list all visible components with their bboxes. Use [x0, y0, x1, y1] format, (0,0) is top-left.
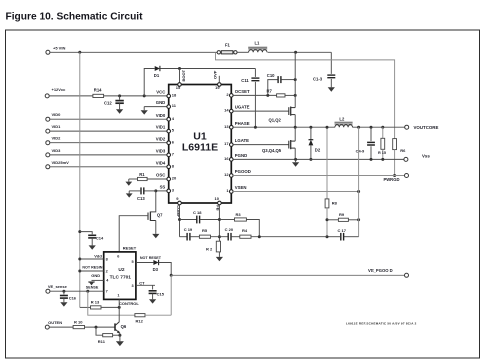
- U1 pin 20 OSC: [156, 173, 177, 181]
- svg-text:PGND: PGND: [235, 153, 247, 158]
- junction R15 top: [381, 126, 384, 129]
- svg-text:C4-9: C4-9: [356, 149, 365, 154]
- svg-text:L6911E REF.SCHEMATIC 50 A/5V 9: L6911E REF.SCHEMATIC 50 A/5V 97 8C/A 2: [346, 321, 417, 325]
- junction C10 branch: [266, 94, 269, 97]
- wire bypass +5V to R6 pullup: [216, 52, 395, 138]
- ground under C1-3: [328, 87, 335, 91]
- junction RESIN rail: [78, 270, 81, 273]
- wire F1 to L1: [237, 51, 249, 53]
- svg-text:17: 17: [224, 141, 229, 146]
- ground under C16: [60, 302, 67, 306]
- terminal Vss: [404, 153, 430, 161]
- wire R12 to Vtt drop: [145, 314, 171, 316]
- U1 pin 13 PHASE: [224, 121, 250, 129]
- svg-text:R11: R11: [98, 339, 106, 344]
- U1 pin 14 UGATE: [224, 105, 250, 113]
- wire Vtt_PGOOD line: [171, 274, 404, 276]
- wire Q6 emitter to ground: [119, 333, 121, 341]
- resistor R13: [91, 299, 102, 309]
- resistor R14: [93, 88, 104, 98]
- ground under Q7: [152, 234, 159, 238]
- capacitor C1-3: [313, 75, 335, 81]
- svg-text:L1: L1: [255, 40, 261, 45]
- U1 pin 5 VID1: [156, 125, 175, 133]
- svg-text:16: 16: [224, 156, 229, 161]
- U1 pin 17 LGATE: [224, 138, 249, 146]
- wire PGOOD to PWRGD: [233, 175, 404, 177]
- junction +5V FET rail: [294, 51, 297, 54]
- U1 pin 6 VID2: [156, 136, 175, 144]
- junction D2 gnd: [309, 158, 312, 161]
- junction R9 right: [357, 218, 360, 221]
- wire C10 to +5 rail: [281, 79, 295, 81]
- svg-text:D2: D2: [315, 148, 321, 153]
- svg-text:VID0: VID0: [52, 112, 62, 117]
- svg-text:8: 8: [106, 257, 108, 261]
- wire LGATE to Q3 gate: [233, 144, 289, 146]
- wire to R11: [96, 327, 103, 335]
- wire D1 to BOOT and C11: [161, 68, 256, 70]
- wire Q3 source to PGND: [294, 148, 296, 159]
- svg-text:BOOT: BOOT: [181, 69, 186, 81]
- U1 pin 15 BOOT: [176, 69, 186, 90]
- capacitor C16: [60, 291, 77, 300]
- svg-text:OSC: OSC: [156, 173, 165, 178]
- junction R6 PWRGD: [393, 174, 396, 177]
- ground at PGND: [292, 159, 299, 166]
- svg-text:VSEN: VSEN: [235, 185, 247, 190]
- svg-text:R 15: R 15: [378, 151, 386, 155]
- svg-text:NOT RESIN: NOT RESIN: [82, 266, 102, 270]
- terminal VID1: [46, 124, 61, 133]
- wire C16 ground: [63, 298, 65, 302]
- U1 pin 2 OCSET: [226, 89, 250, 97]
- svg-text:C 19: C 19: [184, 227, 193, 232]
- terminal VID2: [46, 136, 61, 145]
- junction R7 rail: [294, 94, 297, 97]
- svg-text:L6911E: L6911E: [182, 142, 218, 154]
- junction phase FETs: [294, 126, 297, 129]
- svg-text:Q1,Q2: Q1,Q2: [269, 118, 282, 123]
- U2 pin 1 CONTROL: [117, 294, 139, 306]
- resistor R1: [138, 172, 148, 180]
- junction output sense: [357, 126, 360, 129]
- transistor Q3,Q4,Q5: [262, 140, 295, 153]
- svg-text:19: 19: [215, 85, 220, 90]
- svg-text:VE_sense: VE_sense: [48, 284, 68, 289]
- wire COMP down: [179, 205, 181, 237]
- wire R6 to PWRGD: [394, 150, 396, 176]
- wire C14 ground: [91, 238, 93, 245]
- wire C1-3 to ground: [330, 79, 332, 87]
- svg-text:2: 2: [106, 269, 108, 273]
- junction VSEN sense: [357, 190, 360, 193]
- resistor R3: [219, 212, 246, 221]
- junction BOOT: [178, 67, 181, 70]
- svg-text:VCC: VCC: [156, 90, 165, 95]
- junction R8 net phase: [326, 126, 329, 129]
- junction C10 rail: [294, 78, 297, 81]
- svg-text:TLC 7701: TLC 7701: [110, 275, 132, 281]
- wire L2 to VOUTCORE: [353, 126, 405, 128]
- junction C17 left: [326, 235, 329, 238]
- wire Q6 collector: [118, 307, 120, 322]
- wire C12 to ground: [119, 103, 121, 109]
- U2 pin 3 CT: [131, 280, 145, 288]
- junction FB C18: [218, 218, 221, 221]
- resistor R6: [393, 139, 406, 154]
- svg-text:D3: D3: [153, 267, 159, 272]
- U1 pin 19 OVP: [212, 70, 221, 90]
- junction PGND ground: [294, 158, 297, 161]
- U1 pin 18 VCC: [156, 90, 177, 98]
- svg-text:R 2: R 2: [206, 246, 213, 251]
- junction D1 branch: [143, 94, 146, 97]
- wire VCC to D1: [144, 69, 155, 96]
- U2 pin 4 GND: [91, 273, 109, 283]
- wire GND pin to ground: [144, 106, 167, 108]
- svg-text:R1: R1: [139, 172, 145, 177]
- terminal VE_sense: [46, 284, 68, 293]
- wire +12Vcc to R14: [49, 95, 93, 97]
- wire R5 to FB: [211, 236, 228, 238]
- svg-text:C12: C12: [104, 100, 112, 105]
- U2 pin 8 Vdd: [94, 254, 107, 262]
- wire to C11: [254, 69, 256, 77]
- svg-text:7: 7: [106, 290, 108, 294]
- svg-text:OVP: OVP: [212, 70, 217, 79]
- terminal VID0: [46, 112, 61, 121]
- capacitor C12: [104, 96, 124, 105]
- svg-text:CONTROL: CONTROL: [119, 301, 139, 306]
- terminal OUTEN: [45, 320, 62, 329]
- title caption: [6, 12, 144, 23]
- capacitor C18: [180, 210, 220, 223]
- svg-text:18: 18: [172, 93, 177, 98]
- junction VE_sense drop: [86, 290, 89, 293]
- wire NOT RESET to D3: [136, 262, 154, 264]
- resistor R11: [98, 334, 113, 344]
- capacitor C10: [267, 73, 281, 83]
- wire Q1 source to PHASE: [294, 115, 296, 128]
- board reference code: [346, 321, 417, 325]
- wire C19 to R5: [190, 236, 199, 238]
- svg-text:R3: R3: [236, 212, 242, 217]
- wire VID25mV to pin VID4: [50, 166, 167, 168]
- svg-text:12: 12: [224, 172, 229, 177]
- wire Q7 gate to U2 RESET: [119, 216, 148, 252]
- svg-text:R 13: R 13: [91, 299, 100, 304]
- svg-text:13: 13: [224, 124, 229, 129]
- U2 pin 5 NOT RESET: [131, 256, 161, 264]
- svg-text:+5 VIN: +5 VIN: [53, 45, 65, 50]
- resistor R15: [378, 127, 386, 159]
- wire SS pin to junction: [156, 190, 167, 192]
- op-amp U1 L6911E body: [169, 85, 232, 204]
- U1 pin 10 FB: [215, 196, 222, 211]
- svg-text:VID25mV: VID25mV: [52, 160, 70, 165]
- svg-text:U2: U2: [118, 267, 124, 273]
- wire L1 to C1-3 corner: [268, 51, 332, 53]
- ground under R2: [216, 257, 223, 261]
- capacitor C19: [184, 227, 193, 241]
- capacitor C13: [129, 187, 156, 200]
- wire C15 ground: [152, 294, 154, 300]
- wire BOOT drop: [179, 69, 181, 85]
- transistor Q1,Q2: [269, 107, 296, 123]
- diode D1: [154, 66, 160, 78]
- svg-text:R 10: R 10: [74, 320, 83, 325]
- svg-text:10: 10: [215, 196, 220, 201]
- wire R1 to ground: [129, 178, 138, 180]
- wire down to C1-3: [330, 52, 332, 74]
- ground under C15: [149, 299, 156, 303]
- svg-text:VID4: VID4: [156, 160, 166, 165]
- svg-text:NOT RESET: NOT RESET: [140, 256, 162, 260]
- svg-text:VID1: VID1: [52, 124, 62, 129]
- svg-text:COMP: COMP: [176, 205, 181, 217]
- U1 pin 1 VSEN: [226, 185, 246, 193]
- capacitor C20: [225, 227, 234, 241]
- svg-text:C 18: C 18: [193, 210, 202, 215]
- terminal VID3: [46, 148, 61, 157]
- U1 pin 12 PGOOD: [224, 169, 251, 177]
- wire VID2 to pin VID2: [50, 142, 167, 144]
- wire UGATE to Q1 gate: [233, 110, 289, 112]
- svg-text:VOUTCORE: VOUTCORE: [414, 125, 439, 130]
- svg-text:LGATE: LGATE: [235, 138, 249, 143]
- svg-text:20: 20: [172, 176, 177, 181]
- wire C11 to PHASE: [254, 82, 256, 127]
- svg-text:15: 15: [176, 85, 181, 90]
- op-amp U2 TLC7701 body: [104, 252, 136, 300]
- wire OCSET to R7: [233, 94, 277, 96]
- wire rail to RESIN: [80, 270, 104, 272]
- terminal +12Vcc: [45, 87, 66, 98]
- wire R3 corner: [246, 220, 259, 237]
- U1 pin 9 COMP: [176, 196, 182, 218]
- terminal Vtt_PGOOD: [368, 268, 409, 277]
- svg-text:VID2: VID2: [156, 136, 166, 141]
- capacitor C17: [327, 228, 359, 240]
- wire OSC pin to R1: [147, 178, 167, 180]
- svg-text:1: 1: [117, 294, 119, 298]
- wire sense down R8 top: [326, 127, 328, 199]
- resistor R2: [206, 241, 221, 252]
- svg-text:CT: CT: [139, 280, 145, 285]
- transistor Q6: [115, 322, 127, 334]
- svg-text:Vdd: Vdd: [94, 254, 102, 259]
- wire Vtt down to R12: [170, 275, 172, 315]
- wire R10 to Q6 base: [85, 326, 116, 328]
- svg-text:VID3: VID3: [156, 149, 166, 154]
- svg-text:Q6: Q6: [121, 324, 127, 329]
- diode D2: [309, 127, 321, 159]
- svg-text:C1-3: C1-3: [313, 76, 323, 81]
- junction SS: [154, 189, 157, 192]
- wire Q7 source to ground: [155, 221, 157, 234]
- wire SS to Q7 drain: [150, 191, 155, 212]
- svg-text:VID2: VID2: [52, 136, 62, 141]
- U2 pin 7 SENSE: [86, 286, 108, 294]
- wire R7 to +5 rail: [285, 94, 295, 96]
- svg-text:C10: C10: [267, 73, 275, 78]
- ground at C13: [126, 191, 133, 198]
- wire +5 rail down to Q1 drain: [294, 52, 296, 107]
- svg-text:3: 3: [131, 284, 133, 288]
- svg-text:C 20: C 20: [225, 227, 234, 232]
- ground at GND pin: [141, 107, 148, 115]
- wire PHASE to Q3 drain: [294, 127, 296, 141]
- wire VE_sense to U2: [50, 290, 104, 292]
- svg-text:D1: D1: [154, 73, 160, 78]
- junction D2 phase: [309, 126, 312, 129]
- junction COMP C18: [178, 218, 181, 221]
- wire OUTEN to R10: [49, 326, 73, 328]
- svg-text:OCSET: OCSET: [235, 89, 250, 94]
- junction C12: [118, 94, 121, 97]
- svg-text:R6: R6: [400, 148, 406, 153]
- wire VID1 to pin VID1: [50, 130, 167, 132]
- junction Vdd rail: [78, 258, 81, 261]
- junction C11 phase: [254, 126, 257, 129]
- ground under C14: [89, 245, 96, 249]
- fuse F1: [217, 42, 237, 54]
- wire D3 corner: [159, 263, 172, 276]
- svg-text:14: 14: [224, 108, 229, 113]
- svg-text:Q3,Q4,Q5: Q3,Q4,Q5: [262, 148, 282, 153]
- svg-text:Q7: Q7: [157, 212, 163, 217]
- svg-text:C 17: C 17: [338, 228, 347, 233]
- U1 pin 7 VID3: [156, 149, 175, 157]
- svg-text:GND: GND: [91, 273, 100, 278]
- resistor R7: [267, 89, 286, 97]
- svg-text:L2: L2: [339, 116, 345, 121]
- wire R13 from rail: [80, 306, 91, 308]
- svg-text:PGOOD: PGOOD: [235, 169, 251, 174]
- svg-text:R4: R4: [242, 228, 248, 233]
- svg-text:+12Vcc: +12Vcc: [52, 87, 67, 92]
- junction R11 branch: [95, 326, 98, 329]
- diode D3: [153, 260, 159, 272]
- wire U2 GND pin: [92, 279, 104, 281]
- wire to C10: [268, 80, 278, 96]
- wire R4 to C17 row: [251, 236, 327, 238]
- resistor R12: [135, 314, 145, 324]
- junction C4-9 top: [370, 126, 373, 129]
- svg-text:C13: C13: [137, 196, 145, 201]
- wire +5V rail down: [79, 52, 81, 307]
- wire R13 to CONTROL: [101, 306, 119, 308]
- wire sense vertical: [358, 127, 360, 237]
- wire VID3 to pin VID3: [50, 154, 167, 156]
- resistor R5: [199, 228, 210, 238]
- junction R15 bottom: [381, 158, 384, 161]
- svg-text:SENSE: SENSE: [86, 286, 99, 290]
- svg-text:R14: R14: [94, 88, 102, 93]
- svg-text:RESET: RESET: [123, 245, 137, 250]
- svg-text:VID0: VID0: [156, 113, 166, 118]
- svg-text:PHASE: PHASE: [235, 121, 250, 126]
- junction R9 left: [326, 218, 329, 221]
- junction Vtt line: [170, 274, 173, 277]
- svg-text:R12: R12: [136, 318, 144, 323]
- resistor R4: [240, 228, 251, 238]
- ground under C12: [116, 109, 123, 113]
- svg-text:R8: R8: [332, 201, 338, 206]
- ground at R1: [125, 179, 132, 186]
- svg-text:R5: R5: [202, 228, 208, 233]
- capacitor C15: [149, 285, 165, 296]
- wire R2 to ground: [218, 252, 220, 257]
- capacitor C11 bootstrap: [241, 78, 259, 83]
- svg-text:SS: SS: [160, 185, 166, 190]
- junction emitter: [118, 334, 121, 337]
- wire VE_sense to R12 row: [88, 291, 135, 315]
- junction C14 branch: [78, 230, 81, 233]
- svg-text:Figure 10. Schematic Circuit: Figure 10. Schematic Circuit: [6, 12, 144, 23]
- svg-text:GND: GND: [156, 100, 166, 105]
- wire comp row: [180, 236, 187, 238]
- svg-text:PWRGD: PWRGD: [383, 177, 399, 182]
- U1 pin 4 VID0: [156, 113, 175, 121]
- svg-text:F1: F1: [225, 42, 231, 47]
- wire PHASE pin to L2: [233, 126, 335, 128]
- U1 pin 11 GND: [156, 100, 177, 108]
- svg-text:VID1: VID1: [156, 125, 166, 130]
- svg-text:VID3: VID3: [52, 148, 62, 153]
- junction FB row: [218, 235, 221, 238]
- ground at U2 GND: [88, 282, 94, 285]
- terminal VOUTCORE: [405, 125, 439, 130]
- svg-text:Vss: Vss: [422, 153, 430, 158]
- terminal PWRGD: [383, 174, 408, 183]
- U2 pin 6 RESET: [117, 245, 136, 258]
- U1 pin 3 SS: [160, 185, 175, 193]
- inductor L1: [248, 40, 267, 52]
- svg-text:R9: R9: [339, 212, 345, 217]
- capacitor C4-9: [356, 127, 375, 159]
- capacitor C14: [80, 232, 104, 241]
- svg-text:5: 5: [131, 260, 133, 264]
- junction CONTROL: [118, 306, 121, 309]
- svg-text:OUTEN: OUTEN: [48, 320, 62, 325]
- resistor R9: [327, 212, 359, 221]
- wire R11 to emitter: [113, 334, 120, 336]
- transistor Q7: [148, 212, 163, 221]
- U1 pin 16 PGND: [224, 153, 247, 161]
- wire +5VIN rail to F1: [50, 51, 217, 53]
- svg-text:FB: FB: [216, 205, 221, 210]
- wire CT to C15: [136, 284, 155, 286]
- wire C20 to R4: [231, 236, 240, 238]
- resistor R10: [73, 320, 84, 329]
- wire R14 to VCC pin: [104, 95, 167, 97]
- junction C4-9 bottom: [370, 158, 373, 161]
- resistor R8: [325, 199, 338, 208]
- junction +5V rail drop: [78, 51, 81, 54]
- inductor L2: [335, 116, 353, 127]
- svg-text:C16: C16: [69, 296, 77, 301]
- svg-text:C15: C15: [157, 292, 165, 297]
- wire VSEN to sense: [233, 191, 359, 193]
- svg-text:UGATE: UGATE: [235, 105, 250, 110]
- svg-text:Vtt_PGOO D: Vtt_PGOO D: [368, 268, 393, 273]
- U2 pin 2 NOT RESIN: [82, 266, 107, 274]
- terminal VID25mV: [46, 160, 69, 169]
- wire PGND to Vss: [233, 158, 404, 160]
- terminal +5VIN: [46, 45, 66, 54]
